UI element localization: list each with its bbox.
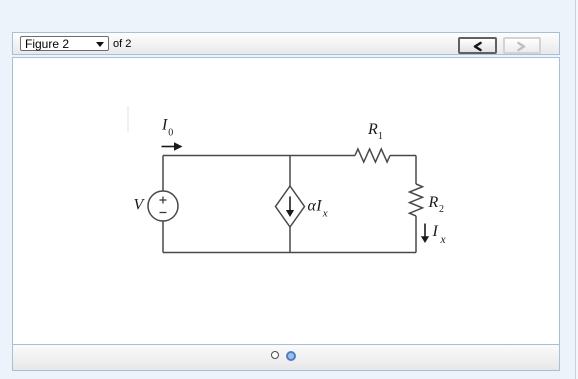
wire: middle branch top (node T-mid down to diamond): [289, 156, 291, 187]
figure viewer header bar: [12, 32, 560, 55]
faint image-edge artifact: [127, 106, 129, 132]
dependent current source (diamond) alpha*Ix: [276, 186, 305, 227]
wire: right branch bottom (R2 to node BR): [415, 216, 417, 253]
next-figure button (disabled): [503, 37, 541, 54]
panel footer bar: [13, 344, 559, 370]
pagination dot 2 (selected): [286, 351, 296, 361]
minus sign inside source V: [160, 212, 167, 214]
svg-text:αI: αI: [308, 198, 323, 215]
wire: left branch bottom (source V to node BL): [162, 221, 164, 253]
right edge separator line: [575, 0, 576, 379]
current arrow Ix (right side, pointing down): [421, 224, 429, 244]
current arrow I0 (top left, pointing right): [162, 142, 183, 150]
arrow inside dependent source (pointing down): [286, 197, 294, 218]
svg-text:0: 0: [168, 128, 173, 139]
pagination dot 1 (unselected): [271, 351, 279, 359]
wire: right branch top (node TR down to R2): [415, 156, 417, 185]
wire: bottom horizontal (node BL to node B-mid to node BR): [163, 252, 416, 254]
wire: middle branch bottom (diamond to node B-mid): [289, 227, 291, 253]
svg-text:2: 2: [439, 204, 444, 215]
white figure panel: [12, 57, 560, 371]
plus sign inside source V: [160, 197, 167, 213]
svg-text:R: R: [367, 121, 378, 138]
previous-figure button: [458, 37, 497, 54]
resistor R1: [355, 149, 390, 162]
svg-text:x: x: [440, 234, 447, 246]
svg-text:R: R: [428, 194, 439, 211]
"of 2" label: [113, 37, 131, 52]
svg-text:1: 1: [378, 131, 383, 142]
wire: left branch top (node TL down to source V): [162, 156, 164, 192]
figure selector dropdown: [20, 36, 109, 51]
voltage source V (independent, circle): [148, 191, 178, 221]
wire: top-left horizontal (node TL to node T-mid to R1 left lead): [163, 155, 355, 157]
svg-text:I: I: [432, 223, 439, 240]
svg-text:V: V: [134, 197, 146, 214]
resistor R2: [410, 184, 423, 216]
wire: top-right horizontal (R1 right lead to node TR): [390, 155, 416, 157]
svg-text:x: x: [322, 208, 328, 220]
svg-text:I: I: [161, 117, 168, 134]
